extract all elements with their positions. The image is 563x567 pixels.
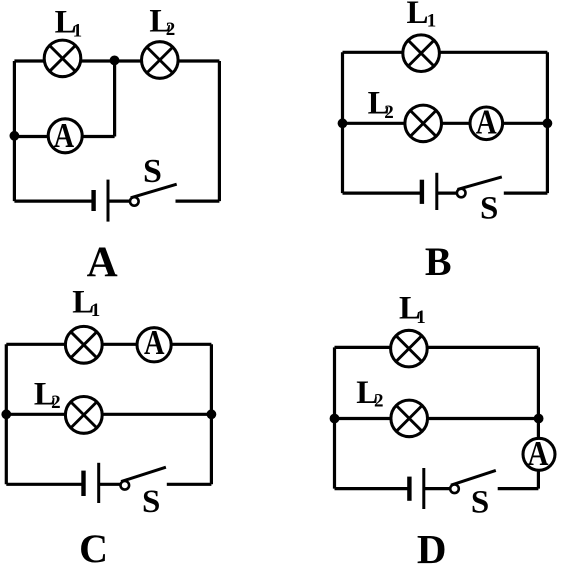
ammeter bbox=[48, 117, 82, 155]
wire bbox=[99, 483, 121, 486]
battery bbox=[84, 463, 99, 503]
wire bbox=[546, 52, 549, 193]
wire bbox=[335, 417, 539, 420]
junction node bbox=[338, 118, 348, 128]
svg-text:S: S bbox=[143, 153, 162, 190]
wire bbox=[14, 59, 219, 62]
wire bbox=[6, 343, 211, 346]
junction node bbox=[110, 56, 120, 66]
svg-text:S: S bbox=[471, 484, 489, 520]
svg-text:S: S bbox=[142, 484, 160, 520]
switch S bbox=[457, 177, 502, 197]
ammeter bbox=[470, 103, 503, 141]
wire bbox=[176, 200, 220, 203]
wire bbox=[218, 61, 221, 201]
svg-text:A: A bbox=[144, 324, 165, 362]
wire bbox=[424, 487, 450, 490]
svg-text:A: A bbox=[87, 239, 118, 286]
svg-text:1: 1 bbox=[427, 11, 437, 32]
wire bbox=[14, 200, 93, 203]
wire bbox=[6, 483, 83, 486]
label L2 bbox=[34, 377, 61, 413]
lamp L1 bbox=[44, 40, 81, 77]
battery bbox=[94, 180, 108, 222]
svg-text:B: B bbox=[425, 239, 452, 284]
lamp L2 bbox=[142, 42, 179, 79]
switch S bbox=[450, 470, 496, 493]
wire bbox=[343, 192, 422, 195]
wire bbox=[498, 487, 539, 490]
lamp L2 bbox=[65, 397, 102, 434]
wire bbox=[108, 200, 130, 203]
label L2 bbox=[149, 4, 175, 40]
label L1 bbox=[55, 4, 83, 41]
junction node bbox=[330, 414, 340, 424]
lamp L2 bbox=[405, 105, 442, 142]
svg-text:2: 2 bbox=[374, 391, 384, 412]
junction node bbox=[534, 414, 544, 424]
junction node bbox=[543, 118, 553, 128]
ammeter bbox=[137, 324, 171, 362]
label L1 bbox=[399, 291, 426, 328]
battery bbox=[409, 468, 423, 509]
wire bbox=[113, 61, 116, 137]
wire bbox=[13, 61, 16, 201]
wire bbox=[343, 122, 548, 125]
svg-text:C: C bbox=[79, 526, 108, 567]
label L1 bbox=[407, 0, 437, 32]
wire bbox=[6, 413, 211, 416]
label L1 bbox=[72, 285, 100, 321]
wire bbox=[335, 346, 539, 349]
svg-text:1: 1 bbox=[91, 300, 101, 321]
svg-text:2: 2 bbox=[51, 392, 61, 413]
wire bbox=[537, 347, 540, 488]
svg-text:A: A bbox=[528, 435, 549, 473]
svg-text:2: 2 bbox=[166, 19, 176, 40]
label L2 bbox=[356, 375, 383, 412]
junction node bbox=[1, 409, 11, 419]
junction node bbox=[10, 131, 20, 141]
svg-text:1: 1 bbox=[73, 21, 83, 42]
wire bbox=[504, 192, 548, 195]
svg-text:1: 1 bbox=[416, 307, 426, 328]
lamp L1 bbox=[403, 35, 440, 72]
wire bbox=[14, 135, 114, 138]
switch S bbox=[121, 467, 166, 489]
lamp L1 bbox=[391, 330, 428, 367]
wire bbox=[167, 483, 212, 486]
label L2 bbox=[368, 85, 394, 123]
lamp L1 bbox=[65, 326, 102, 363]
ammeter bbox=[523, 435, 555, 473]
svg-text:A: A bbox=[476, 103, 497, 141]
lamp L2 bbox=[391, 400, 428, 437]
svg-text:2: 2 bbox=[384, 102, 394, 123]
wire bbox=[341, 52, 344, 193]
wire bbox=[5, 344, 8, 484]
svg-text:A: A bbox=[54, 117, 75, 155]
svg-text:D: D bbox=[417, 526, 447, 567]
junction node bbox=[207, 409, 217, 419]
wire bbox=[437, 192, 457, 195]
wire bbox=[210, 344, 213, 484]
wire bbox=[343, 51, 548, 54]
svg-text:S: S bbox=[480, 191, 498, 227]
wire bbox=[335, 487, 410, 490]
switch S bbox=[130, 184, 177, 206]
wire bbox=[333, 347, 336, 488]
battery bbox=[422, 173, 437, 210]
svg-text:L: L bbox=[407, 0, 429, 31]
